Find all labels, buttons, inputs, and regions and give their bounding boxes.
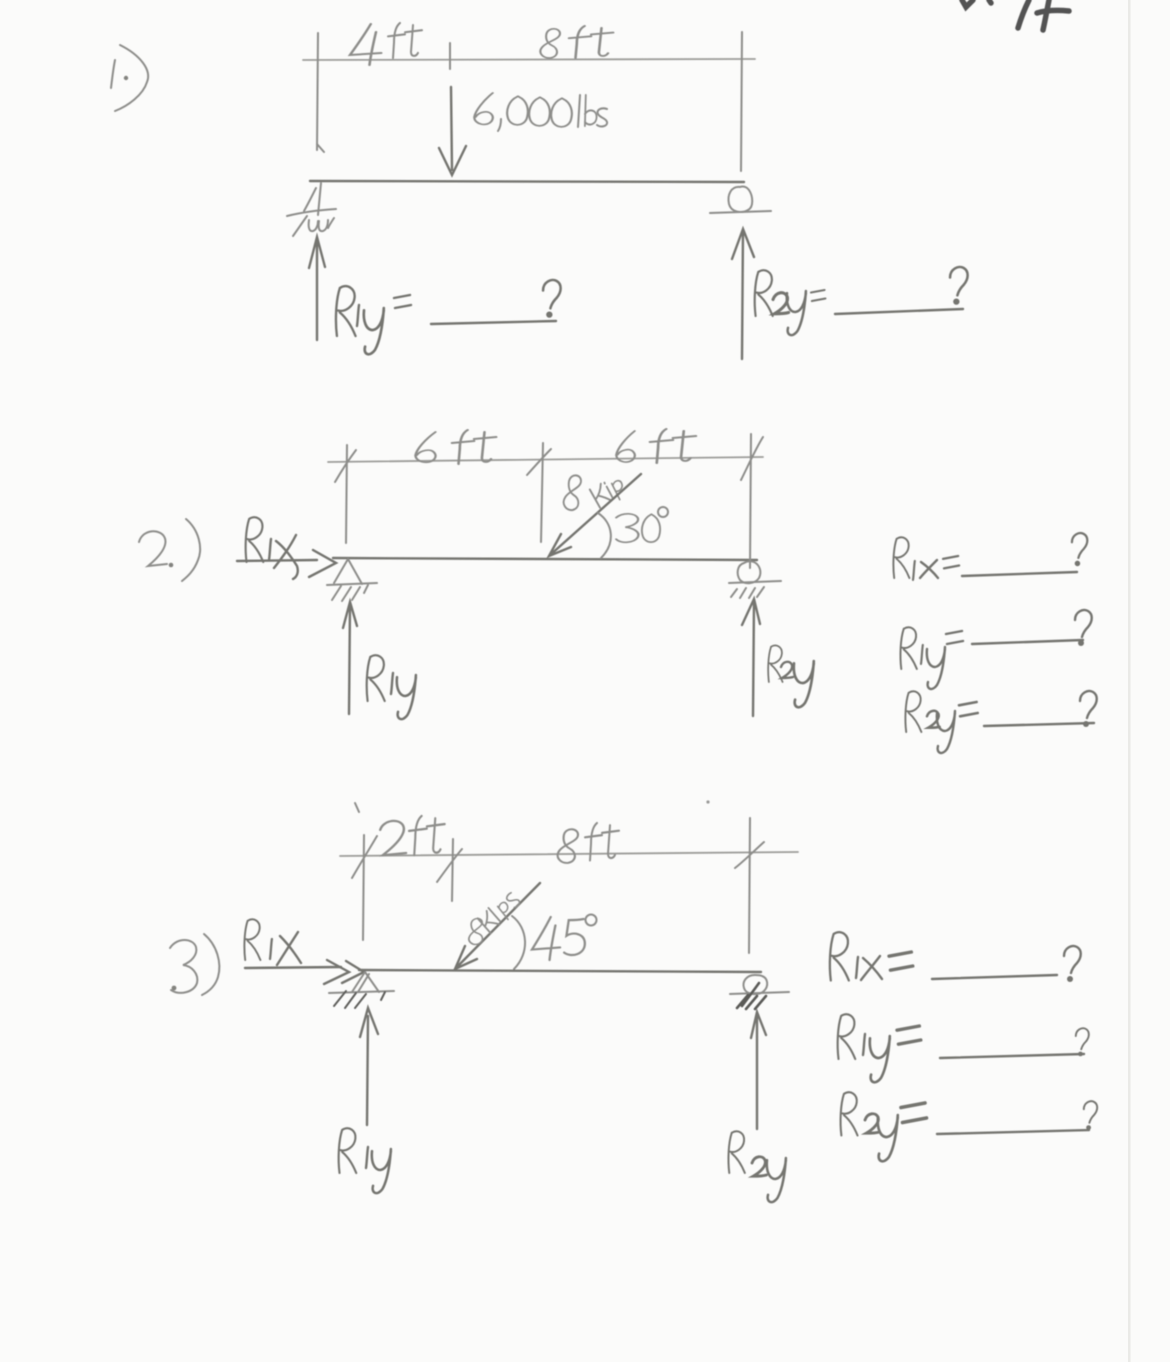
p2 answers R1y= <box>900 627 916 669</box>
p3 dimension line <box>340 852 798 856</box>
p2 R1y arrow <box>343 602 357 714</box>
p2 label R1x <box>246 517 264 562</box>
p3 label R1y <box>339 1128 357 1173</box>
problem 2 label "2.)" <box>139 519 200 581</box>
p1 load arrow 6000 lbs <box>439 87 466 175</box>
p1 right extension line <box>741 32 742 171</box>
problem 1 label "1.)" <box>111 45 148 111</box>
p3 diagonal load arrow <box>455 883 540 969</box>
p1 R1y arrow <box>309 237 325 340</box>
p3 R1y arrow <box>360 1008 378 1125</box>
p2 text 6 ft right <box>616 429 696 463</box>
p1 answer line 1 <box>431 321 556 324</box>
p1 label R2y= <box>755 270 773 316</box>
right edge scan line <box>1128 0 1131 1362</box>
p1 question mark 2 <box>950 267 968 305</box>
p2 beam <box>333 558 757 560</box>
p1 text 8 ft <box>540 26 613 58</box>
p1 pin support <box>287 183 336 236</box>
p3 text 8Kips rotated <box>466 889 524 945</box>
p2 mid tick <box>527 443 551 542</box>
p3 label R1x <box>244 919 260 960</box>
p3 answers R1x= <box>830 932 849 980</box>
p2 text 8Kip <box>564 473 629 510</box>
p2 pin support <box>327 559 377 601</box>
p2 label R2y <box>768 645 782 682</box>
p2 answers R2y= <box>905 691 921 732</box>
p3 label R2y <box>728 1131 744 1173</box>
p2 dimension line <box>328 457 763 462</box>
p2 left tick <box>335 445 356 543</box>
p2 R1x arrowhead <box>309 550 336 577</box>
problem 3 label "3.)" <box>170 934 219 995</box>
p1 text 4 ft <box>350 23 422 65</box>
p1 answer line 2 <box>835 309 963 314</box>
p1 R2y arrow <box>732 229 754 359</box>
p1 roller support <box>710 186 771 213</box>
p3 beam <box>359 970 761 972</box>
p3 text 45deg <box>532 915 597 961</box>
p1 question mark 1 <box>543 280 561 318</box>
p3 R1x arrowheads <box>324 960 364 984</box>
p3 R1x arrow shaft <box>245 967 341 968</box>
p3 right tick <box>735 818 764 953</box>
stray pencil dot <box>706 800 709 803</box>
p1 label R1y= <box>336 286 356 336</box>
p2 right tick <box>741 434 763 568</box>
p3 answers R2y= <box>841 1092 858 1135</box>
p2 angle arc <box>598 513 611 558</box>
p2 R2y arrow <box>742 599 760 716</box>
p2 text 6 ft left <box>416 430 497 464</box>
p3 left tick <box>352 803 377 940</box>
p2 answers Rix= <box>893 537 909 578</box>
p3 text 8ft <box>558 823 619 863</box>
p1 mid tick <box>449 43 451 69</box>
p3 pin support <box>329 972 394 1008</box>
p1 text 6,000 lbs <box>474 93 607 131</box>
p3 angle arc <box>512 916 525 969</box>
p1 left extension line <box>317 33 324 152</box>
p1 dimension line <box>303 59 755 60</box>
p1 beam <box>310 181 744 182</box>
p3 roller support <box>730 975 789 1009</box>
p2 diagonal load arrow <box>549 474 641 556</box>
p3 text 2ft <box>380 816 444 855</box>
p2 text 30deg <box>616 507 668 542</box>
p2 R1x arrow shaft <box>237 560 317 561</box>
page number mark top right <box>962 0 1069 30</box>
p3 R2y arrow <box>751 1012 766 1129</box>
p2 label R1y <box>367 655 385 701</box>
p2 roller support <box>729 561 781 598</box>
p3 answers R1y= <box>838 1014 856 1059</box>
p3 mid tick <box>437 839 462 901</box>
